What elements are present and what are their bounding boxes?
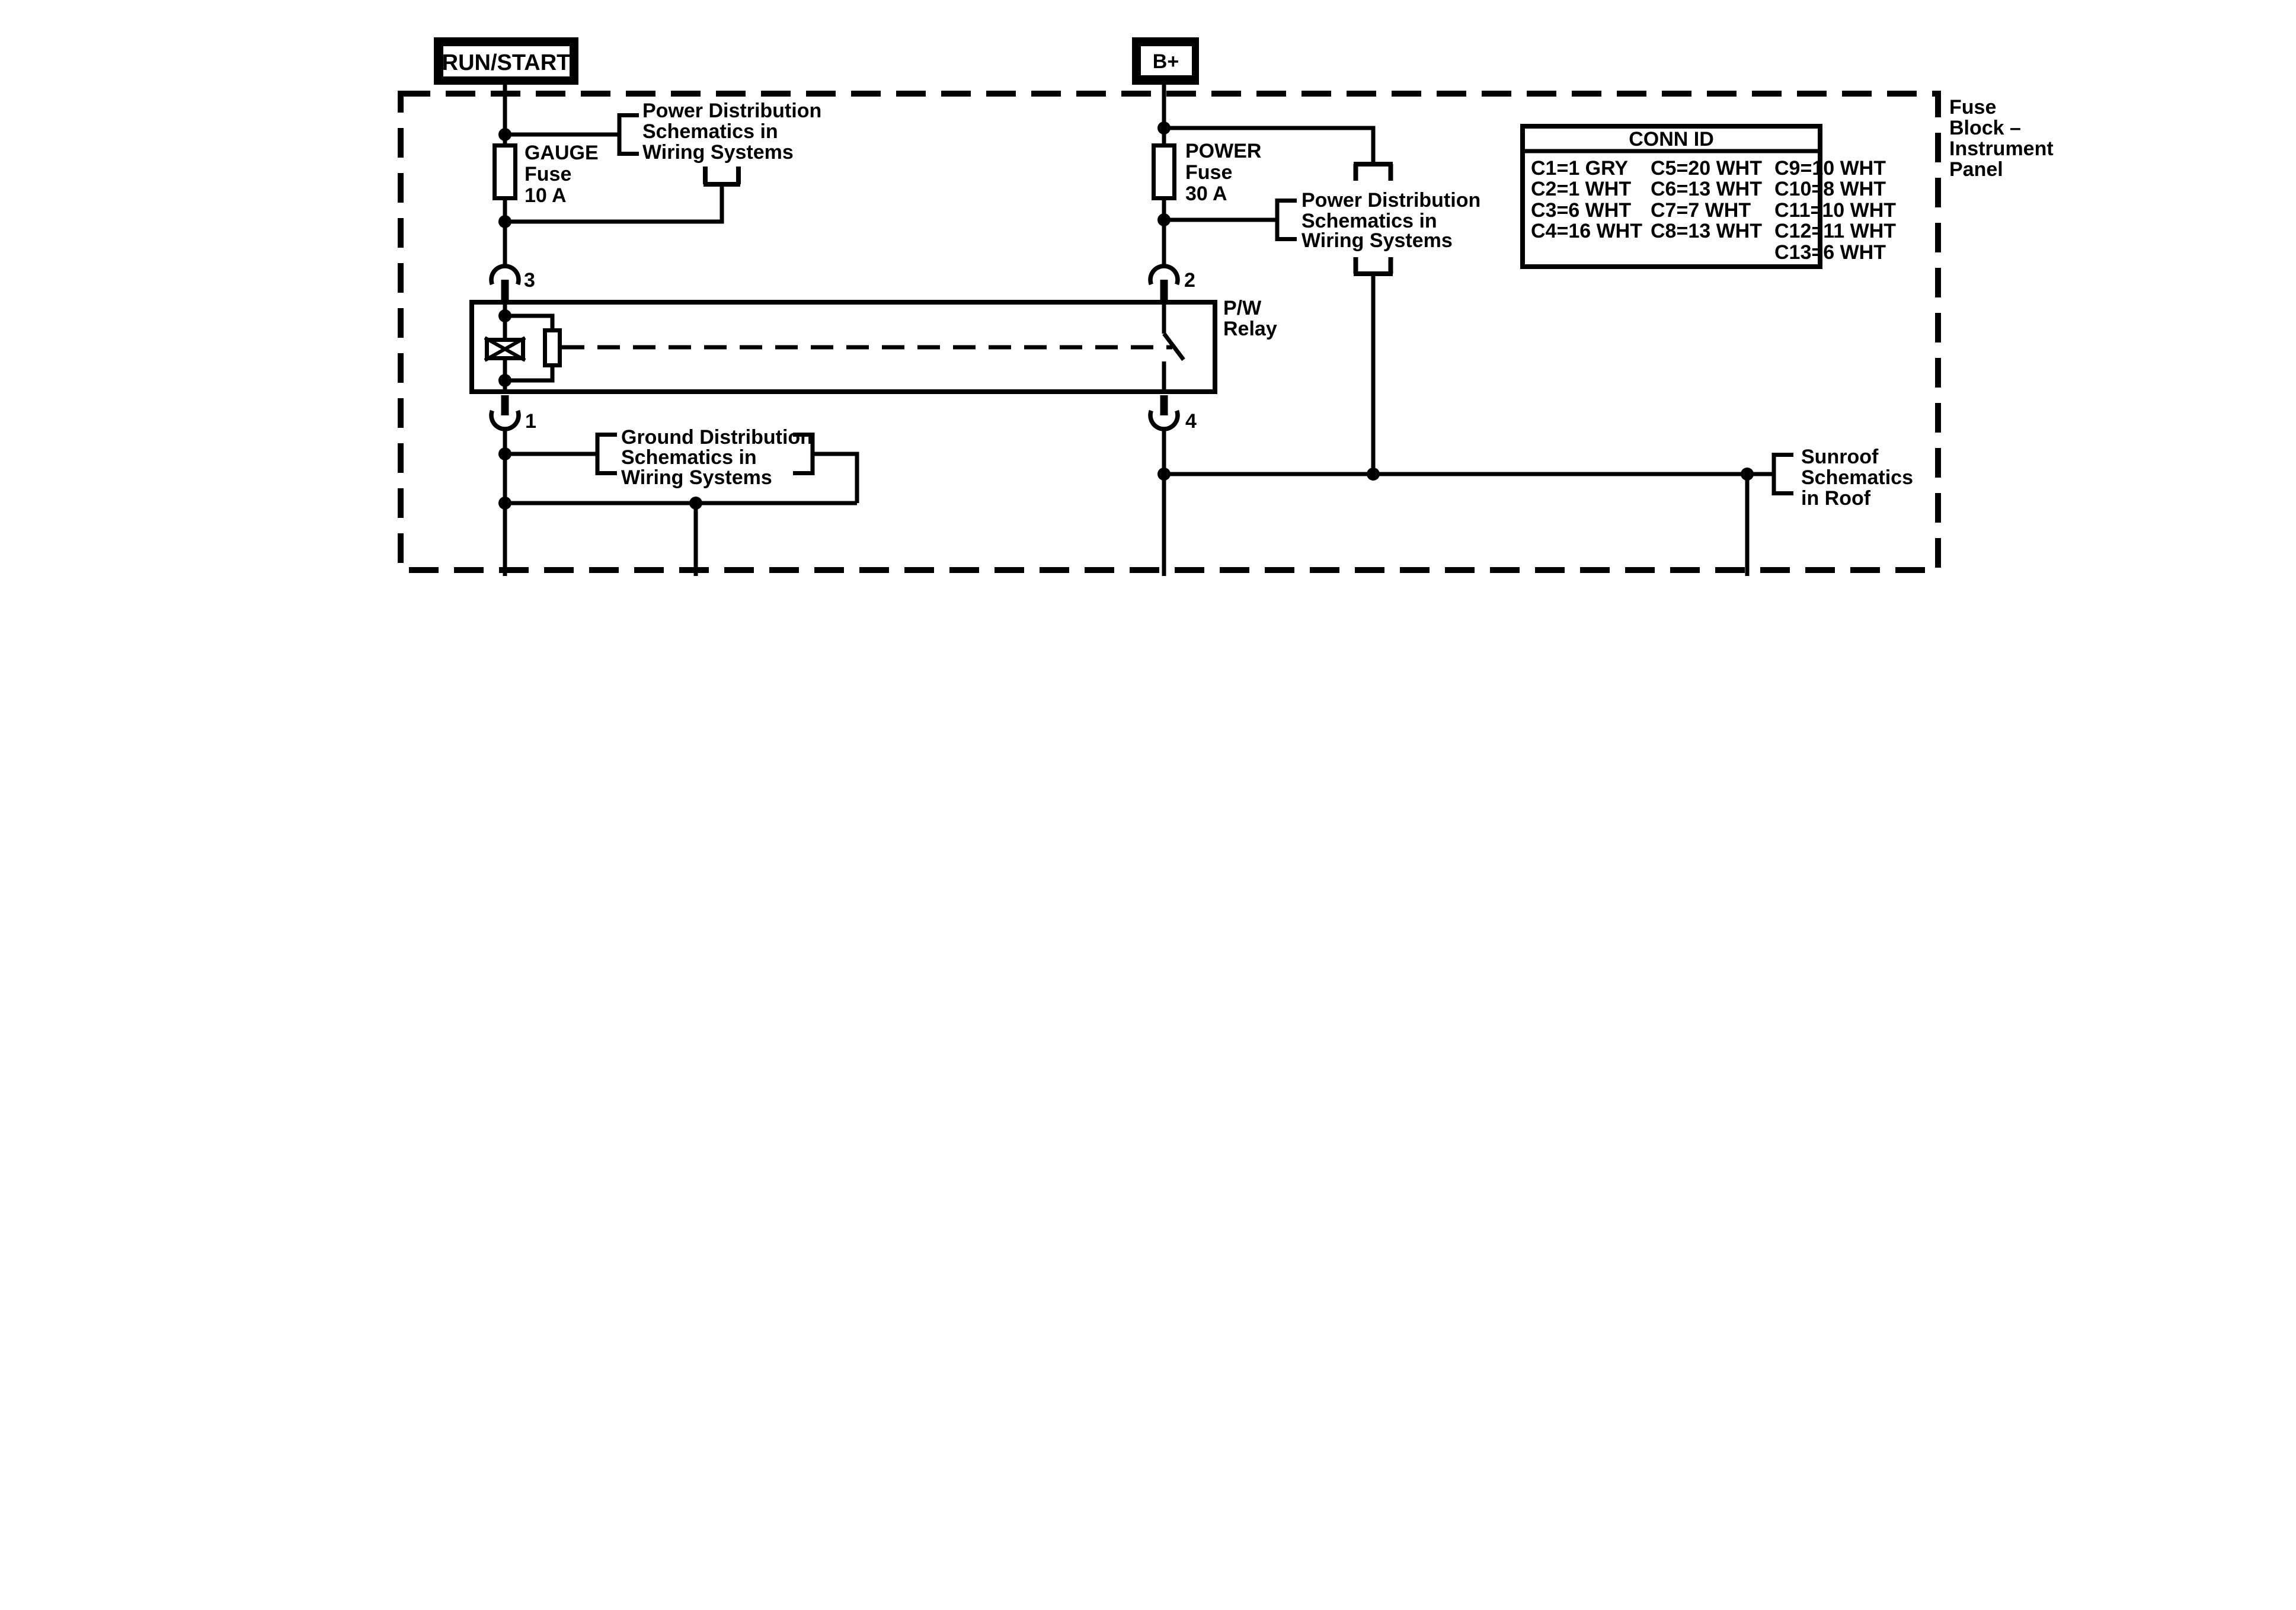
label Sunroof Schematics in Roof: [1801, 446, 1913, 510]
connector pin 2 of P/W relay: [1150, 266, 1178, 302]
bracket below Wiring Systems text: [703, 167, 740, 184]
svg-text:C4=16 WHT: C4=16 WHT: [1531, 220, 1642, 242]
svg-text:Power Distribution: Power Distribution: [1302, 189, 1480, 212]
svg-text:Block –: Block –: [1949, 117, 2021, 139]
svg-text:C1=1 GRY: C1=1 GRY: [1531, 157, 1628, 180]
relay coil: [485, 338, 525, 360]
svg-text:Wiring Systems: Wiring Systems: [621, 466, 772, 489]
relay switch fixed contact from pin 2: [1162, 303, 1166, 334]
relay switch lower contact to pin 4: [1162, 361, 1166, 392]
label Power Distribution Schematics in Wiring Systems (right): [1302, 189, 1480, 252]
bracket right of Ground Distribution text: [793, 433, 813, 475]
svg-text:B+: B+: [1153, 50, 1179, 73]
wire pin 1 down: [503, 429, 507, 576]
value label POWER Fuse 30 A: [1185, 140, 1261, 205]
wire reference drop to bus: [1371, 274, 1376, 474]
svg-text:C13=6 WHT: C13=6 WHT: [1774, 241, 1886, 264]
wire C5 drop to fuse block edge: [1745, 474, 1750, 576]
wire GAUGE fuse to connector 3: [503, 200, 507, 266]
svg-text:C2=1 WHT: C2=1 WHT: [1531, 178, 1631, 200]
svg-text:Ground Distribution: Ground Distribution: [621, 426, 813, 449]
label Fuse Block - Instrument Panel: [1949, 96, 2054, 181]
table CONN ID: [1520, 126, 1896, 267]
svg-text:in Roof: in Roof: [1801, 487, 1871, 510]
node junction below GAUGE fuse: [498, 215, 511, 228]
terminal B+: [1132, 37, 1199, 85]
wire relay coil top: [503, 303, 507, 338]
bracket left of Ground Distribution text: [597, 433, 617, 475]
svg-text:RUN/START: RUN/START: [442, 50, 571, 75]
svg-text:C8=13 WHT: C8=13 WHT: [1651, 220, 1762, 242]
svg-text:Power Distribution: Power Distribution: [642, 100, 821, 122]
svg-text:C11=10 WHT: C11=10 WHT: [1774, 199, 1896, 222]
svg-text:Panel: Panel: [1949, 158, 2003, 181]
svg-text:C5=20 WHT: C5=20 WHT: [1651, 157, 1762, 180]
wire RUN/START down to GAUGE fuse: [503, 85, 507, 143]
connector pin 4 of P/W relay: [1150, 395, 1178, 429]
label P/W Relay: [1223, 297, 1277, 340]
svg-text:1: 1: [525, 410, 536, 433]
node junction above POWER fuse: [1157, 121, 1171, 135]
node junction above GAUGE fuse: [498, 128, 511, 141]
svg-text:C7=7 WHT: C7=7 WHT: [1651, 199, 1751, 222]
wire from bracket down and left to below GAUGE fuse: [505, 184, 722, 222]
svg-text:C6=13 WHT: C6=13 WHT: [1651, 178, 1762, 200]
svg-text:Fuse: Fuse: [1949, 96, 1996, 119]
svg-text:Instrument: Instrument: [1949, 137, 2054, 160]
node bus junction at C5 drop: [1741, 468, 1754, 481]
node bus junction at reference drop: [1367, 468, 1380, 481]
svg-text:30 A: 30 A: [1185, 183, 1227, 205]
svg-text:C10=8 WHT: C10=8 WHT: [1774, 178, 1886, 200]
svg-text:Wiring Systems: Wiring Systems: [642, 141, 794, 164]
fuse GAUGE 10 A: [495, 146, 516, 199]
wire from right bracket down to lower run: [813, 454, 857, 503]
relay P/W Relay box: [472, 302, 1215, 392]
label Ground Distribution Schematics in Wiring Systems (fuse block): [621, 426, 813, 489]
wire coil junction to resistor top: [505, 316, 552, 328]
svg-text:10 A: 10 A: [525, 184, 567, 207]
node junction below POWER fuse: [1157, 213, 1171, 226]
wire junction to power distribution bracket: [505, 133, 619, 137]
relay switch arm: [1164, 334, 1184, 360]
bracket left of Power Distribution text: [1277, 199, 1297, 241]
bracket to Power Distribution reference: [619, 113, 639, 156]
svg-text:Fuse: Fuse: [525, 163, 571, 185]
value label GAUGE Fuse 10 A: [525, 142, 599, 207]
wire coil bottom: [503, 360, 507, 392]
svg-text:Relay: Relay: [1223, 318, 1277, 340]
bracket interruption above Power Distribution text: [1354, 164, 1393, 181]
node junction at ground distribution tap: [498, 447, 511, 460]
svg-text:Sunroof: Sunroof: [1801, 446, 1879, 468]
node bus junction at pin 4 wire: [1157, 468, 1171, 481]
wire junction right to vertical reference drop: [1164, 128, 1373, 164]
node coil bottom junction: [498, 374, 511, 387]
bracket to Sunroof Schematics reference: [1774, 453, 1793, 495]
connector pin 1 of P/W relay: [491, 395, 519, 429]
dashed actuation line in relay: [562, 345, 1172, 350]
svg-text:CONN ID: CONN ID: [1629, 128, 1714, 151]
label Power Distribution Schematics in Wiring Systems (left): [642, 100, 821, 164]
svg-text:C3=6 WHT: C3=6 WHT: [1531, 199, 1631, 222]
svg-text:4: 4: [1185, 410, 1197, 433]
resistor in relay: [545, 331, 560, 366]
wire pin 4 down to bus: [1162, 429, 1166, 576]
svg-text:GAUGE: GAUGE: [525, 142, 599, 164]
wire C6 branch down: [694, 503, 698, 576]
node junction on left wire: [498, 497, 511, 510]
terminal RUN/START: [434, 37, 578, 85]
svg-text:2: 2: [1184, 269, 1195, 292]
wire B+ down to POWER fuse: [1162, 85, 1166, 143]
wire junction to power distribution bracket: [1164, 218, 1277, 222]
wire junction to resistor bottom: [505, 367, 552, 380]
wire lower horizontal run back to left wire: [505, 501, 857, 505]
node junction branch to C6: [689, 497, 702, 510]
bracket interruption below Power Distribution text: [1354, 257, 1393, 274]
svg-text:C12=11 WHT: C12=11 WHT: [1774, 220, 1896, 242]
svg-text:POWER: POWER: [1185, 140, 1261, 162]
svg-text:Schematics in: Schematics in: [642, 120, 778, 143]
fuse block - instrument panel dashed outline: [401, 94, 1938, 570]
svg-text:Fuse: Fuse: [1185, 161, 1232, 184]
connector pin 3 of P/W relay: [491, 266, 519, 302]
wire bus to sunroof bracket: [1164, 472, 1774, 476]
svg-text:Schematics in: Schematics in: [621, 446, 757, 469]
wire to ground distribution bracket: [505, 452, 597, 456]
wire POWER fuse to connector 2: [1162, 200, 1166, 266]
svg-text:P/W: P/W: [1223, 297, 1262, 319]
node coil top junction: [498, 309, 511, 322]
svg-text:3: 3: [524, 269, 535, 292]
svg-text:C9=10 WHT: C9=10 WHT: [1774, 157, 1886, 180]
svg-text:Wiring Systems: Wiring Systems: [1302, 229, 1453, 252]
fuse POWER 30 A: [1154, 146, 1175, 199]
svg-text:Schematics: Schematics: [1801, 466, 1913, 489]
